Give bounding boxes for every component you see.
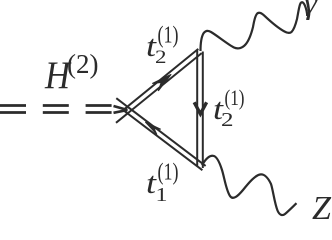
fermion line t1(1): triangle bottom side (double line), inner strand: [124, 111, 202, 170]
svg-text:(1): (1): [225, 85, 245, 110]
svg-text:(1): (1): [158, 160, 179, 186]
arrow on bottom side (pointing to upper left, toward V1): [145, 122, 160, 135]
svg-text:Z: Z: [312, 190, 331, 221]
Higgs propagator: converging tip into vertex V1: [114, 106, 128, 113]
fermion line t2(1): triangle right side (vertical double line), left strand: [196, 50, 198, 167]
svg-text:(2): (2): [67, 49, 98, 79]
photon wavy line to gamma (top right): [201, 2, 308, 51]
svg-text:1: 1: [156, 185, 168, 206]
arrow on right side (pointing down): [194, 102, 206, 114]
Higgs propagator H^(2): double dashed line, top strand: [0, 104, 112, 107]
svg-text:2: 2: [221, 110, 234, 131]
Z boson wavy line (bottom right): [202, 156, 297, 215]
svg-text:2: 2: [155, 48, 167, 68]
fermion line t2(1): triangle top side (double line), outer strand: [125, 49, 199, 109]
arrow on top side (pointing to upper right): [152, 74, 171, 91]
svg-text:γ: γ: [304, 0, 318, 20]
fermion line t2(1): triangle right side (vertical double line), right strand: [202, 52, 204, 169]
Higgs propagator H^(2): double dashed line, bottom strand: [0, 111, 112, 114]
fermion line t1(1): triangle bottom side (double line), outer strand: [116, 98, 205, 166]
fermion line t2(1): triangle top side (double line), inner strand: [116, 53, 202, 123]
svg-text:(1): (1): [158, 23, 179, 49]
